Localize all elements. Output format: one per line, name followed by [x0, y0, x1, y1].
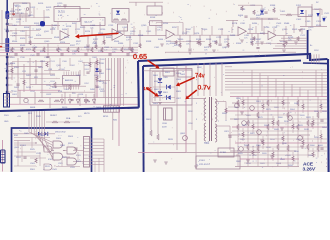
capacitor C54 — [98, 69, 101, 71]
svg-text:R404: R404 — [238, 15, 244, 17]
wire — [41, 60, 43, 98]
connector J1 plug top — [5, 11, 9, 19]
wire — [237, 97, 239, 167]
svg-text:RESET: RESET — [50, 115, 58, 117]
ground — [158, 102, 162, 104]
ground — [240, 111, 244, 113]
wire — [144, 70, 177, 72]
wire — [174, 34, 238, 36]
connector J1 pin 1 stub — [8, 23, 12, 25]
wire — [185, 28, 187, 35]
resistor R48 — [317, 112, 319, 118]
wire — [282, 96, 284, 100]
transistor Q607 — [298, 136, 303, 141]
resistor R1 — [95, 45, 97, 50]
bridge box — [150, 69, 192, 106]
resistor R59 — [292, 124, 294, 129]
svg-text:R304: R304 — [10, 63, 16, 65]
svg-text:R707: R707 — [308, 15, 314, 17]
wire — [148, 143, 196, 145]
svg-text:R470: R470 — [174, 45, 180, 47]
module box PS3 — [196, 156, 240, 169]
wire — [43, 10, 45, 22]
svg-text:IC901: IC901 — [20, 145, 27, 147]
wire — [285, 26, 287, 35]
op-amp U5 — [268, 31, 276, 40]
wire interior — [56, 166, 80, 168]
module box PS1 — [163, 68, 174, 76]
connector J1 pin 2 — [6, 30, 8, 32]
IC U6 pins top — [63, 72, 65, 76]
resistor R43 — [297, 100, 299, 106]
wire — [87, 36, 89, 45]
wire — [14, 155, 40, 157]
wire — [320, 139, 322, 143]
connector J1 pin 6 stub — [8, 77, 12, 79]
resistor R39 — [277, 120, 279, 126]
wire — [272, 116, 274, 120]
resistor R25 — [253, 37, 255, 41]
svg-text:C473: C473 — [182, 33, 188, 35]
resistor R42 — [287, 112, 289, 118]
red arrow from 0.65 — [148, 60, 157, 66]
wire bus — [36, 111, 38, 136]
resistor RT3 — [273, 8, 275, 13]
wire — [12, 61, 50, 63]
svg-text:C612: C612 — [46, 94, 52, 96]
resistor R66 — [320, 134, 322, 139]
wire — [250, 17, 278, 19]
wire — [135, 2, 137, 6]
connector J3 pin wire — [90, 151, 105, 153]
junction — [35, 142, 36, 143]
svg-text:Q801: Q801 — [180, 133, 186, 135]
wire — [320, 130, 322, 134]
resistor R91 — [35, 158, 37, 163]
wire — [10, 97, 138, 99]
connector J3 pin wire — [90, 154, 105, 156]
diode D14 — [167, 95, 171, 99]
wire — [139, 30, 141, 47]
wire — [155, 152, 260, 154]
svg-text:R248: R248 — [150, 17, 156, 19]
svg-text:R476: R476 — [194, 33, 200, 35]
wire — [275, 79, 277, 97]
wire — [262, 145, 264, 149]
wire — [64, 7, 66, 9]
ground — [270, 155, 274, 157]
diode D1 — [116, 11, 120, 14]
wire — [25, 10, 27, 22]
wire — [123, 28, 125, 35]
resistor R2 — [103, 40, 105, 45]
connector J3 hatch — [84, 138, 90, 140]
capacitor C16 — [14, 53, 17, 55]
wire — [283, 81, 285, 97]
svg-text:1: 1 — [196, 103, 197, 105]
wire — [308, 150, 327, 152]
wire — [199, 35, 201, 44]
wire drop — [316, 54, 318, 63]
svg-text:C521: C521 — [324, 13, 330, 15]
wire — [82, 62, 100, 64]
wire bus to W1 — [273, 48, 307, 50]
diode D13 — [158, 91, 162, 95]
wire — [302, 109, 304, 113]
svg-text:TH01: TH01 — [180, 74, 186, 76]
wire — [235, 142, 327, 144]
resistor R9 — [283, 43, 285, 48]
wire — [150, 105, 152, 130]
module box M7 — [298, 7, 312, 17]
wire bus — [31, 111, 33, 133]
capacitor C21b — [23, 156, 26, 158]
wire — [242, 128, 244, 132]
wire — [251, 70, 253, 97]
wire — [267, 76, 269, 97]
wire — [267, 97, 269, 167]
svg-text:L601: L601 — [12, 94, 18, 96]
wire — [14, 140, 30, 142]
wire — [79, 70, 81, 85]
off-page arrow A1 — [316, 13, 319, 17]
wire — [283, 36, 285, 47]
capacitor C52 — [34, 69, 37, 71]
wire — [312, 148, 314, 152]
capacitor CT1 — [244, 15, 247, 17]
resistor R49 — [242, 100, 244, 105]
wire — [238, 138, 327, 140]
wire — [312, 157, 314, 161]
wire — [197, 63, 199, 96]
note ACE backdrop — [299, 158, 326, 172]
wire — [273, 28, 275, 35]
wire — [320, 100, 322, 104]
wire bus fan — [29, 132, 53, 143]
capacitor C22b — [74, 147, 77, 149]
wire bus to W1 — [277, 42, 307, 44]
svg-text:C616: C616 — [78, 94, 84, 96]
wire — [99, 22, 101, 35]
resistor R65 — [96, 76, 98, 81]
wire — [44, 70, 70, 72]
wire — [33, 8, 35, 18]
svg-text:R464: R464 — [158, 39, 164, 41]
resistor R3 — [139, 44, 141, 49]
wire bus — [33, 111, 35, 134]
resistor R40 — [277, 144, 279, 150]
svg-text:R426: R426 — [50, 75, 56, 77]
svg-text:C810: C810 — [162, 123, 168, 125]
wire — [227, 35, 229, 46]
wire — [252, 155, 254, 159]
wire — [193, 26, 195, 35]
wire — [242, 96, 244, 100]
resistor R21 — [131, 48, 133, 53]
wire — [282, 132, 284, 136]
capacitor C14 — [256, 47, 259, 49]
svg-text:5: 5 — [218, 103, 219, 105]
wire — [99, 58, 101, 78]
ground — [260, 41, 264, 43]
ground — [160, 43, 164, 45]
wire — [186, 98, 206, 100]
wire — [83, 26, 85, 35]
wire — [0, 43, 70, 45]
wire — [185, 66, 187, 152]
svg-text:Y/C AV: Y/C AV — [15, 9, 22, 12]
resistor R5 — [199, 41, 201, 46]
off-page arrow A2 — [322, 18, 325, 22]
resistor R14 — [43, 48, 45, 53]
wire — [215, 63, 217, 96]
wire — [312, 116, 314, 120]
wire — [292, 129, 294, 133]
resistor R81 — [150, 130, 152, 136]
svg-text:R488: R488 — [230, 35, 236, 37]
svg-text:47n: 47n — [130, 34, 133, 36]
wire — [64, 92, 66, 104]
red arrow from 74V — [179, 77, 194, 84]
svg-text:R815: R815 — [168, 139, 174, 141]
resistor R57 — [282, 100, 284, 105]
wire — [96, 58, 98, 98]
power box outer left edge — [137, 61, 140, 108]
wire — [47, 44, 49, 56]
svg-text:R314: R314 — [60, 42, 66, 44]
wire interior — [77, 152, 79, 160]
resistor R44 — [297, 124, 299, 130]
resistor R20 — [121, 48, 123, 53]
wire interior — [47, 143, 49, 153]
ground — [300, 145, 304, 147]
capacitor C62 — [320, 147, 323, 149]
wire — [17, 141, 19, 167]
ground — [153, 159, 157, 161]
wire — [94, 62, 96, 95]
svg-text:R554: R554 — [114, 41, 120, 43]
svg-text:74v: 74v — [195, 74, 205, 80]
wire bus — [44, 111, 46, 139]
wire — [49, 148, 53, 150]
wire — [40, 91, 95, 93]
wire — [7, 13, 28, 15]
wire — [249, 24, 251, 33]
svg-text:3.26V: 3.26V — [303, 167, 316, 173]
red tick — [0, 46, 2, 48]
wire bus fan — [32, 133, 53, 145]
wire — [242, 137, 244, 141]
module box M2 — [81, 18, 105, 26]
wire — [129, 1, 163, 3]
wire bus — [28, 111, 30, 132]
resistor R61 — [54, 82, 56, 88]
transistor Q606 — [288, 116, 293, 121]
wire — [0, 55, 138, 57]
wire bus — [225, 78, 327, 80]
svg-text:C452: C452 — [122, 27, 128, 29]
resistor R71 — [38, 100, 44, 102]
wire — [11, 8, 13, 20]
resistor R13 — [33, 48, 35, 53]
gate G6 — [44, 164, 52, 170]
wire bus fan — [39, 137, 44, 148]
wire — [319, 8, 321, 27]
off-page arrow 1 — [61, 94, 63, 100]
resistor R62 — [69, 84, 71, 90]
transistor Q601 — [235, 103, 240, 108]
svg-text:R230: R230 — [100, 29, 106, 31]
gate G5 — [44, 146, 52, 152]
wire — [203, 63, 205, 96]
wire — [238, 4, 262, 6]
wire bus — [225, 75, 327, 77]
capacitor C5 — [128, 47, 131, 49]
resistor R7 — [227, 43, 229, 48]
resistor R63 — [46, 62, 48, 67]
connector J1 pin 2 stub — [8, 30, 12, 32]
wire — [191, 103, 193, 130]
IC U6 timer — [63, 76, 80, 86]
resistor R26 — [285, 41, 287, 45]
wire — [240, 99, 327, 101]
gate G2 — [53, 153, 63, 160]
svg-text:C461: C461 — [146, 31, 152, 33]
transformer T801 core — [209, 97, 211, 141]
svg-text:7: 7 — [218, 121, 219, 123]
wire bus — [105, 58, 107, 106]
transistor Q3 — [24, 98, 28, 102]
wire bus — [120, 58, 122, 106]
capacitor C55 — [95, 85, 98, 87]
ground — [212, 49, 216, 51]
resistor RT1 — [241, 6, 243, 11]
wire — [300, 26, 327, 28]
svg-text:R434: R434 — [62, 29, 68, 31]
svg-text:R911: R911 — [45, 166, 51, 168]
resistor RN4 — [64, 121, 70, 123]
wire — [225, 110, 327, 112]
resistor R22 — [175, 41, 177, 45]
wire — [103, 80, 105, 98]
svg-text:115V: 115V — [314, 50, 319, 52]
op-amp U2 — [112, 29, 123, 41]
wire — [261, 18, 263, 31]
wire — [79, 98, 81, 106]
wire — [57, 22, 59, 30]
control box — [12, 128, 92, 174]
wire — [17, 58, 19, 98]
capacitor C17 — [46, 56, 49, 58]
wire feedback in — [155, 25, 157, 31]
wire — [293, 24, 295, 33]
svg-text:RP01: RP01 — [103, 116, 109, 118]
wire — [261, 5, 263, 10]
ground — [298, 29, 302, 31]
svg-text:3: 3 — [196, 119, 197, 121]
resistor R32 — [237, 124, 239, 130]
wire — [7, 25, 60, 27]
bridge inner box — [152, 72, 175, 103]
resistor R46 — [307, 144, 309, 150]
wire — [124, 35, 166, 37]
resistor R33 — [247, 120, 249, 126]
transistor Q604 — [257, 130, 262, 135]
wire — [155, 28, 157, 35]
wire — [312, 8, 322, 10]
wire — [230, 96, 327, 98]
module box M1 — [54, 7, 80, 22]
wire — [112, 112, 114, 140]
wire — [282, 105, 284, 109]
wire — [226, 20, 238, 22]
scan texture — [77, 31, 79, 32]
svg-text:R356: R356 — [236, 43, 242, 45]
ground — [188, 51, 192, 53]
resistor R6 — [209, 43, 211, 48]
svg-text:R260: R260 — [178, 39, 184, 41]
wire — [84, 35, 112, 37]
wire — [0, 46, 138, 48]
red arrow from 0.7V — [188, 90, 197, 97]
wire bus fan — [45, 139, 53, 160]
resistor R30 — [89, 62, 91, 67]
svg-text:R386: R386 — [118, 43, 124, 45]
capacitor C11 — [218, 43, 221, 45]
power box right edge — [327, 59, 330, 172]
svg-text:R524: R524 — [64, 37, 70, 39]
wire — [189, 35, 191, 48]
svg-text:R494: R494 — [252, 23, 258, 25]
op-amp U4 — [238, 27, 246, 36]
wire — [161, 24, 163, 31]
capacitor CT2 — [264, 11, 267, 13]
wire — [63, 156, 70, 158]
connector J1 pin 4 stub — [8, 63, 12, 65]
connector J1 pin 8 — [6, 91, 8, 93]
resistor R72 — [54, 100, 60, 102]
wire — [277, 97, 279, 167]
diode D11 — [158, 78, 162, 82]
wire — [11, 62, 13, 80]
svg-text:C413: C413 — [30, 7, 36, 9]
resistor R10 — [29, 41, 31, 46]
wire — [242, 105, 244, 109]
svg-text:R218: R218 — [66, 26, 72, 28]
capacitor C30 — [86, 71, 89, 73]
connector J3 pin wire — [90, 144, 105, 146]
wire — [252, 129, 254, 133]
svg-text:R290: R290 — [264, 27, 270, 29]
wire — [257, 34, 259, 47]
transformer T801 secondary — [215, 99, 217, 122]
wire bus — [225, 89, 327, 91]
svg-text:R402: R402 — [26, 75, 32, 77]
capacitor C41 — [70, 99, 73, 101]
wire — [255, 26, 257, 33]
wire bus to W1 — [281, 37, 307, 39]
resistor R34 — [247, 144, 249, 150]
wire — [10, 103, 138, 105]
svg-text:D702: D702 — [296, 5, 302, 7]
wire — [231, 27, 233, 33]
connector J1 body — [6, 0, 8, 107]
wire — [73, 161, 83, 163]
svg-text:R402: R402 — [14, 87, 20, 89]
wire — [83, 62, 85, 76]
wire — [50, 85, 86, 87]
wire — [55, 8, 90, 10]
